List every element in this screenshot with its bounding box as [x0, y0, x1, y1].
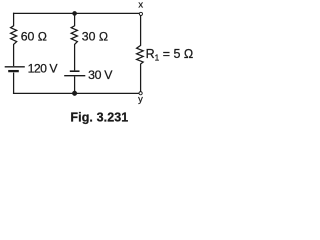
- svg-text:30 Ω: 30 Ω: [82, 30, 108, 44]
- svg-text:y: y: [138, 93, 143, 104]
- svg-text:x: x: [138, 0, 143, 10]
- svg-text:Fig. 3.231: Fig. 3.231: [70, 110, 128, 124]
- svg-text:120 V: 120 V: [28, 62, 59, 76]
- svg-text:60 Ω: 60 Ω: [21, 30, 47, 44]
- svg-text:30 V: 30 V: [88, 68, 113, 82]
- svg-text:R1 = 5 Ω: R1 = 5 Ω: [146, 47, 194, 63]
